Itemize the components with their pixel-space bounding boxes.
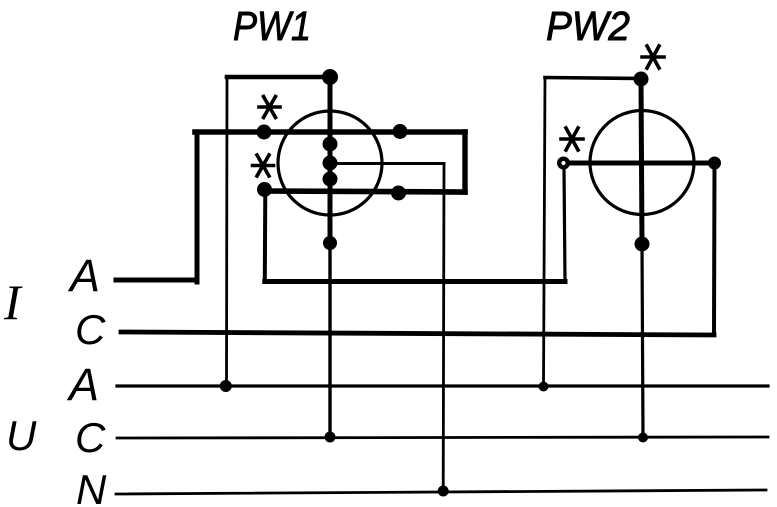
node junction on C voltage bus PW1 xyxy=(325,432,336,443)
wattmeter PW1 xyxy=(278,111,382,215)
wire PW1 voltage coil vertical xyxy=(328,77,333,243)
wire PW1 center tap lead xyxy=(330,162,444,165)
wire PW2 lead down to phase A voltage bus xyxy=(544,78,546,387)
wire PW1 lead down to phase A voltage bus xyxy=(225,77,228,386)
wire PW1 lower left drop xyxy=(263,190,268,281)
wire current return run to PW2 xyxy=(265,279,565,284)
node PW2 top terminal xyxy=(634,72,649,87)
node PW1 vertical junction upper xyxy=(323,137,338,152)
polarity asterisk PW1 lower terminal xyxy=(253,155,274,176)
wire bus A current xyxy=(116,278,197,283)
node junction on A voltage bus PW1 xyxy=(220,380,232,392)
node PW1 lower right junction xyxy=(391,186,406,201)
node PW2 bottom junction xyxy=(635,237,650,252)
svg-text:A: A xyxy=(67,250,100,301)
terminal PW2 right open circle xyxy=(710,159,719,168)
svg-text:N: N xyxy=(76,466,107,507)
polarity asterisk PW1 current terminal xyxy=(259,97,280,118)
wattmeter PW2 xyxy=(590,111,694,215)
node PW1 vertical junction middle xyxy=(323,156,338,171)
node PW1 upper right junction xyxy=(393,124,408,139)
svg-text:PW1: PW1 xyxy=(233,3,311,49)
terminal PW2 left open circle xyxy=(559,159,568,168)
svg-text:C: C xyxy=(75,414,106,461)
node PW1 top terminal xyxy=(322,69,338,85)
node junction on N bus xyxy=(438,486,449,497)
wire bus N xyxy=(116,490,766,494)
wire PW2 right terminal drop xyxy=(712,163,717,335)
wire PW1 top lead xyxy=(227,75,330,80)
wire PW2 lead down to phase C voltage bus xyxy=(642,244,643,437)
wire PW1 lead down to phase C voltage bus xyxy=(328,243,331,437)
wire riser from bus A to PW1 current coil xyxy=(195,132,200,282)
svg-text:I: I xyxy=(3,274,23,330)
wire PW2 voltage coil vertical xyxy=(641,79,642,244)
svg-text:A: A xyxy=(66,359,99,410)
svg-text:U: U xyxy=(6,412,37,459)
node PW1 bottom junction xyxy=(323,236,337,250)
wire bus A voltage xyxy=(117,384,768,387)
node junction on A voltage bus PW2 xyxy=(539,382,549,392)
wire bus C voltage xyxy=(117,437,768,438)
wire PW2 top lead xyxy=(545,78,641,79)
node PW1 vertical junction lower xyxy=(323,172,338,187)
wire PW2 current coil lead xyxy=(563,161,715,166)
polarity asterisk PW2 top terminal xyxy=(642,46,664,68)
svg-text:PW2: PW2 xyxy=(546,3,630,49)
node PW1 lower left terminal xyxy=(257,182,272,197)
svg-text:C: C xyxy=(75,306,106,353)
node PW1 upper left terminal xyxy=(257,125,272,140)
wire PW1 lead down to neutral bus xyxy=(442,164,446,492)
wire PW1 current coil lower lead xyxy=(262,191,465,192)
wire riser to PW2 left terminal xyxy=(564,168,565,282)
polarity asterisk PW2 left terminal xyxy=(561,128,583,150)
wire bus C current xyxy=(121,332,714,335)
node junction on C voltage bus PW2 xyxy=(638,433,648,443)
wire PW1 right side drop xyxy=(462,132,467,192)
wire PW1 current coil upper lead xyxy=(195,129,465,135)
